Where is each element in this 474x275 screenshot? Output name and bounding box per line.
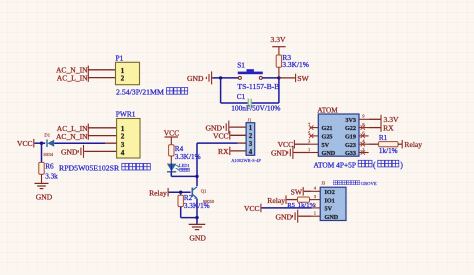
pin 4 label of J1: [249, 149, 253, 156]
ground GND (PWR1 pin 4): [61, 145, 83, 158]
svg-text:ATOM 4P+5P: ATOM 4P+5P: [314, 160, 356, 169]
wire VCC to D1: [34, 142, 45, 144]
connector J1 A1002WR-S-4P: [246, 118, 255, 156]
svg-text:GND: GND: [322, 150, 336, 157]
wire VCC to ATOM pin 3: [295, 143, 310, 145]
wire VCC to J3 pin 2: [262, 207, 312, 209]
ground (below R6): [35, 183, 53, 201]
svg-text:3: 3: [249, 141, 253, 148]
wire RX to J1 pin 4: [230, 150, 246, 152]
svg-text:SS34: SS34: [43, 152, 53, 157]
pin 1 of J3: [312, 211, 321, 217]
wire VCC to J1 pin 2: [230, 134, 246, 136]
pin 8 of ATOM: [359, 122, 369, 130]
svg-text:RPD5W05E102SR: RPD5W05E102SR: [59, 163, 120, 172]
module PWR1: [116, 110, 140, 158]
svg-text:G21: G21: [322, 125, 333, 132]
node AC_L_IN (PWR1): [57, 124, 88, 133]
value label R5 1k/1%: [287, 202, 315, 209]
value label R4 3.3K/1%: [175, 145, 201, 161]
wire AC_L_IN to P1 pin 2: [88, 77, 116, 79]
value label 100nF/50V/10%: [231, 104, 280, 113]
svg-text:VCC: VCC: [164, 128, 180, 137]
svg-text:GND: GND: [276, 213, 293, 222]
svg-text:3: 3: [121, 141, 125, 149]
value label R1 1k/1%: [379, 134, 398, 155]
svg-text:IO1: IO1: [325, 197, 335, 204]
junction (VCC/R6 node): [40, 142, 43, 145]
svg-text:S1: S1: [237, 60, 245, 69]
ground (below Q1): [189, 224, 207, 242]
svg-text:RX: RX: [218, 147, 229, 156]
pin label GND (ATOM): [322, 150, 336, 157]
svg-text:1k/1%: 1k/1%: [379, 147, 398, 155]
junction (emitter/R2 node): [195, 216, 198, 219]
pin 2 label of PWR1: [121, 133, 125, 141]
svg-text:1: 1: [121, 125, 125, 133]
svg-text:PWR1: PWR1: [116, 110, 136, 119]
value label R3 3.3K/1%: [282, 53, 308, 69]
svg-text:2: 2: [121, 75, 125, 83]
pin 4 of J3: [312, 186, 321, 192]
svg-text:A1002WR-S-4P: A1002WR-S-4P: [231, 158, 261, 163]
svg-text:R6: R6: [45, 162, 54, 170]
svg-text:2: 2: [121, 133, 125, 141]
connector J3 label: [321, 180, 376, 185]
svg-text:1: 1: [249, 125, 253, 132]
pin 6 of ATOM: [359, 130, 369, 138]
value label R6 3.3k: [45, 162, 58, 180]
svg-text:1: 1: [121, 67, 125, 75]
pin label 5V: [322, 142, 330, 149]
svg-text:J3: J3: [321, 180, 325, 185]
svg-text:5V: 5V: [325, 206, 333, 213]
svg-text:ATOM: ATOM: [317, 106, 338, 114]
pin 2 of J3: [312, 202, 321, 208]
pin 2 label of P1: [121, 75, 125, 83]
pin 3 label of J1: [249, 141, 253, 148]
resistor R2: [178, 192, 183, 206]
LED LED1 blue-green: [167, 164, 180, 172]
pin 3 of ATOM: [308, 139, 318, 145]
pin 4 of ATOM: [359, 139, 369, 147]
module ATOM: [317, 106, 359, 156]
value label TS-1157-B-B: [237, 82, 279, 91]
junction (base/R2 node): [179, 191, 182, 194]
wire AC_L_IN to PWR1 pin 1: [88, 127, 117, 129]
resistor R5: [287, 197, 312, 202]
pin label G19: [345, 134, 356, 141]
wire R4 to LED1: [170, 156, 172, 164]
node SW (J3 pin 4): [291, 187, 304, 197]
wire GND to J3 pin 1: [298, 215, 311, 217]
node VCC (J1 pin 2): [213, 131, 230, 141]
ground GND (J1 pin 1): [206, 121, 229, 134]
pin 4 label of PWR1: [121, 149, 125, 157]
svg-text:2.54/3P/21MM: 2.54/3P/21MM: [116, 88, 164, 97]
pin 3 of J3: [312, 194, 321, 200]
power 3.3V (above R3): [271, 35, 286, 47]
pin 1 label of J1: [249, 125, 253, 132]
svg-text:Relay: Relay: [149, 189, 167, 198]
value label A1002WR-S-4P: [231, 158, 261, 163]
svg-text:3V3: 3V3: [345, 117, 356, 124]
svg-text:VCC: VCC: [213, 132, 229, 141]
wire AC_N_IN to P1 pin 1: [88, 69, 116, 71]
pin label G23: [345, 142, 356, 149]
resistor R3: [276, 55, 281, 67]
node RX (J1 pin 4): [218, 147, 230, 157]
pin 1 label of P1: [121, 67, 125, 75]
value label RPD5W05E102SR power module: [59, 163, 150, 172]
svg-text:C1: C1: [237, 93, 246, 101]
svg-text:): ): [400, 160, 403, 169]
junction (LED/collector node): [195, 175, 198, 178]
pin label IO1: [325, 197, 335, 204]
wire R2 to emitter node: [181, 207, 197, 218]
svg-text:R4: R4: [175, 145, 184, 153]
node SW: [279, 74, 310, 83]
svg-text:4: 4: [121, 149, 125, 157]
svg-text:G25: G25: [322, 134, 333, 141]
transistor Q1 S8050: [192, 187, 215, 204]
power VCC (above R4): [164, 128, 180, 137]
wire emitter to ground: [196, 199, 198, 225]
node Relay (ATOM G23 via R1): [402, 140, 422, 149]
pin label G22: [345, 125, 356, 132]
value label 2.54/3P/21MM long header: [116, 88, 188, 97]
wire J1 pin 3 to Q1 collector: [197, 143, 238, 186]
svg-text:G33: G33: [345, 150, 356, 157]
wire Relay to Q1 base: [169, 191, 191, 193]
wire R3 to SW node: [278, 67, 280, 78]
pin 2 of ATOM: [359, 147, 369, 155]
svg-text:G22: G22: [345, 125, 356, 132]
pin label G33: [345, 150, 356, 157]
svg-text:VCC: VCC: [17, 139, 33, 148]
svg-text:Relay: Relay: [267, 196, 285, 205]
svg-text:SW: SW: [291, 188, 303, 197]
pin 5 of ATOM: [308, 130, 318, 138]
pin 2 label of J1: [249, 133, 253, 140]
value label LED1 blue-green: [179, 163, 190, 172]
svg-text:GND: GND: [187, 74, 204, 83]
node AC_N_IN (PWR1): [56, 131, 88, 140]
svg-text:GND: GND: [36, 193, 53, 202]
wire SW to J3 pin 4: [304, 190, 312, 192]
ground GND (J3 pin 1): [276, 210, 298, 223]
connector P1: [116, 54, 140, 85]
node Relay (J3 via R5): [267, 195, 286, 204]
svg-text:R1: R1: [379, 134, 388, 142]
power 3.3V (ATOM 3V3): [369, 115, 399, 124]
resistor R4: [169, 145, 174, 156]
svg-text:TS-1157-B-B: TS-1157-B-B: [237, 82, 279, 91]
node RX (ATOM G22): [369, 123, 395, 132]
svg-text:3.3k: 3.3k: [45, 173, 58, 181]
wire 3.3V to R3: [278, 47, 280, 55]
resistor R6: [39, 162, 44, 174]
switch S1: [237, 60, 263, 79]
svg-text:VCC: VCC: [244, 204, 260, 213]
svg-text:4: 4: [249, 149, 253, 156]
wire VCC node to R6: [41, 143, 43, 162]
ground GND (left of S1): [187, 71, 212, 84]
wire GND to PWR1 pin 4: [84, 150, 116, 152]
svg-text:LED1: LED1: [179, 163, 190, 168]
svg-text:P1: P1: [116, 54, 124, 63]
svg-text:SW: SW: [297, 74, 309, 83]
svg-text:(: (: [373, 160, 376, 169]
pin 1 of ATOM: [308, 147, 318, 153]
svg-text:Q1: Q1: [201, 188, 207, 193]
pin label G25: [322, 134, 333, 141]
pin 7 of ATOM: [308, 122, 318, 130]
node Relay (base drive): [149, 188, 168, 198]
node VCC (J3 pin 2): [244, 204, 261, 214]
connector J3 body: [320, 187, 346, 220]
pin 1 label of PWR1: [121, 125, 125, 133]
pin label 5V (J3): [325, 206, 333, 213]
svg-text:GND: GND: [61, 148, 78, 157]
svg-text:GND: GND: [189, 233, 206, 242]
svg-text:RX: RX: [383, 123, 394, 132]
svg-text:3.3K/1%: 3.3K/1%: [282, 60, 308, 69]
wire J1 pin 3 stub: [238, 142, 246, 144]
pin 3 label of PWR1: [121, 141, 125, 149]
svg-text:IO2: IO2: [325, 189, 335, 196]
wire S1 to R3 node: [262, 77, 279, 79]
svg-text:GROVE: GROVE: [361, 181, 377, 186]
node AC_N_IN: [56, 66, 88, 75]
ground GND (ATOM pin 1): [271, 146, 293, 159]
svg-text:GND: GND: [325, 214, 339, 221]
wire LED1 to collector node: [171, 172, 197, 177]
svg-text:AC_L_IN: AC_L_IN: [57, 74, 88, 83]
node VCC (ATOM 5V): [278, 140, 295, 149]
resistor R1: [369, 142, 402, 147]
wire AC_N_IN to PWR1 pin 2: [88, 135, 117, 137]
pin 9 of ATOM: [359, 114, 369, 120]
svg-text:3.3V: 3.3V: [271, 35, 286, 44]
pin label 3V3: [345, 117, 356, 124]
svg-text:Relay: Relay: [404, 140, 422, 149]
pin label GND (J3): [325, 214, 339, 221]
svg-text:GND: GND: [271, 149, 288, 158]
wire C1 loop left: [221, 78, 248, 103]
node AC_L_IN: [57, 73, 88, 82]
wire GND to S1: [212, 77, 239, 79]
wire R6 to ground: [41, 174, 43, 183]
svg-text:100nF/50V/10%: 100nF/50V/10%: [231, 104, 280, 113]
value label R2 3.3K/1%: [184, 194, 210, 210]
svg-text:AC_N_IN: AC_N_IN: [56, 132, 88, 141]
junction (left of S1): [219, 76, 222, 79]
svg-text:5V: 5V: [322, 142, 330, 149]
wire GND to J1 pin 1: [229, 126, 246, 128]
wire D1 to PWR1 pin 3: [54, 142, 116, 144]
svg-text:G23: G23: [345, 142, 356, 149]
junction (R3/SW node): [277, 76, 280, 79]
svg-text:G19: G19: [345, 134, 356, 141]
pin label G21: [322, 125, 333, 132]
svg-text:D1: D1: [44, 133, 50, 138]
pin label IO2: [325, 189, 335, 196]
wire GND to ATOM pin 1: [294, 152, 310, 154]
capacitor C1: [237, 93, 251, 107]
value label ATOM 4P+5P header (pre-processing): [314, 160, 404, 169]
diode D1 SS34: [43, 133, 54, 157]
svg-text:S8050: S8050: [203, 199, 215, 204]
svg-text:2: 2: [249, 133, 253, 140]
wire C1 loop right: [252, 78, 279, 103]
svg-text:J1: J1: [248, 118, 252, 123]
wire VCC to R4: [170, 137, 172, 145]
node VCC (left): [17, 139, 34, 148]
